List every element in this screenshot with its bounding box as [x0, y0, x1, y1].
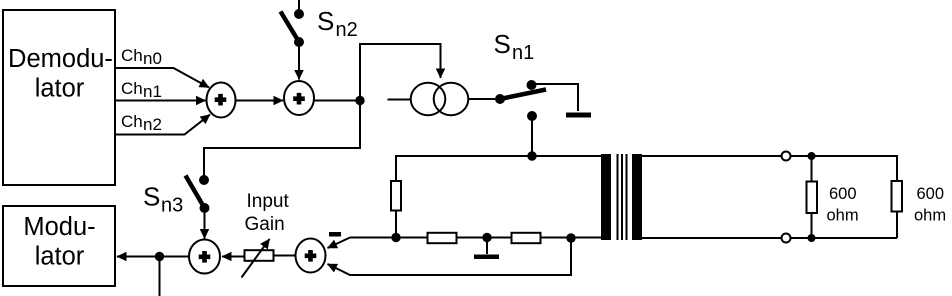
svg-text:Ch: Ch [121, 79, 143, 98]
switch Sn3 [186, 175, 210, 213]
wire secondary bottom [642, 237, 781, 239]
wire output down [159, 257, 161, 296]
minus sign (U4 upper input) [329, 232, 341, 237]
svg-text:n1: n1 [512, 42, 534, 64]
svg-text:S: S [143, 182, 160, 212]
wire Chn0 to summer U1 [116, 68, 209, 88]
wire bottom load [791, 237, 898, 239]
wire feedback to summer U4 lower input [328, 238, 572, 275]
wire U1 to U2 [236, 100, 284, 102]
svg-text:Input: Input [247, 191, 290, 212]
wire secondary top [642, 155, 781, 157]
resistor R5 600 ohm [892, 181, 903, 238]
potentiometer Input Gain [242, 239, 274, 278]
svg-text:n3: n3 [161, 194, 183, 216]
node center tap [482, 233, 491, 242]
node top load [808, 152, 816, 160]
wire primary top rail [396, 156, 601, 180]
label R4 [827, 185, 859, 224]
wire R1 to bottom rail [395, 211, 397, 237]
summer U1 [207, 83, 236, 118]
wire bottom rail to summer U4 upper input [328, 238, 351, 249]
ground (Sn1) [566, 113, 591, 118]
label R5 [914, 185, 946, 224]
terminal bottom (open) [782, 234, 791, 243]
node A junction [355, 96, 364, 105]
ground (center) [474, 238, 499, 260]
summer U2 [284, 81, 314, 115]
wire Chn2 to summer U1 [116, 115, 210, 135]
svg-text:n0: n0 [143, 49, 162, 68]
wire pot to summer U3 [222, 256, 244, 258]
switch Sn1 label [494, 29, 535, 64]
switch Sn1 [495, 80, 546, 121]
terminal top (open) [782, 152, 791, 161]
resistor R3 (horizontal) [512, 233, 541, 243]
Demodulator block [3, 10, 115, 185]
node on primary top rail [527, 151, 536, 160]
resistor R4 600 ohm [807, 156, 818, 238]
svg-text:S: S [494, 29, 511, 59]
svg-text:n2: n2 [336, 19, 358, 41]
node R1/bottom rail [391, 233, 400, 242]
label Input Gain [245, 191, 290, 235]
svg-text:Ch: Ch [121, 112, 143, 131]
wire Sn1 throw to ground [536, 84, 578, 111]
svg-text:Gain: Gain [245, 214, 285, 235]
node output junction [155, 252, 164, 261]
summer U3 [189, 240, 220, 274]
summer U4 [296, 239, 326, 273]
svg-text:ohm: ohm [914, 207, 946, 225]
switch Sn2 label [317, 6, 358, 41]
wire node A up to transformer T1 [360, 44, 441, 100]
resistor R1 (vertical, balance) [391, 181, 401, 211]
svg-text:S: S [317, 6, 334, 36]
wire U4 to pot [275, 255, 296, 257]
wire primary bottom rail [350, 237, 601, 239]
wire Sn1 pole2 down to primary rail [531, 118, 533, 156]
svg-text:lator: lator [35, 75, 85, 103]
node Chn1 label [121, 79, 162, 101]
wire terminal to load [791, 156, 898, 180]
transformer T2 (hybrid) [601, 154, 642, 240]
wire Sn3 to U3 [204, 211, 206, 239]
svg-text:Modu-: Modu- [23, 213, 95, 241]
svg-text:Demodu-: Demodu- [8, 45, 113, 73]
node bottom load [808, 234, 816, 242]
svg-text:n2: n2 [143, 115, 162, 134]
wire U2 to node A [314, 100, 360, 102]
node feedback [566, 233, 575, 242]
switch Sn2 [281, 0, 305, 47]
wire U3 to Modulator [117, 256, 189, 258]
wire node A down to switch Sn3 [204, 101, 360, 176]
wire Chn1 to summer U1 [116, 100, 206, 102]
svg-text:Ch: Ch [121, 46, 143, 65]
svg-text:600: 600 [917, 185, 945, 203]
Modulator block [3, 206, 115, 286]
transformer T1 (isolation, circles) [388, 83, 496, 115]
switch Sn3 label [143, 182, 183, 217]
svg-text:ohm: ohm [827, 207, 859, 225]
wire Sn2 to U2 [298, 45, 300, 80]
resistor R2 (horizontal) [428, 233, 457, 243]
svg-text:600: 600 [829, 185, 857, 203]
node Chn2 label [121, 112, 162, 134]
svg-text:lator: lator [35, 243, 85, 271]
node Chn0 label [121, 46, 162, 68]
svg-text:n1: n1 [143, 82, 162, 101]
